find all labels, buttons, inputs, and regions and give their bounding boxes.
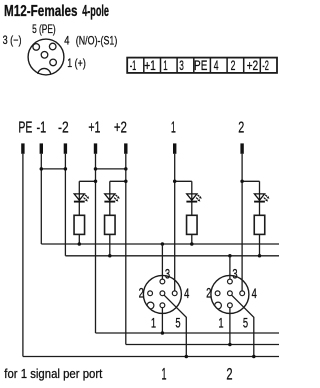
resistor R1	[74, 215, 85, 234]
svg-text:1: 1	[162, 365, 167, 383]
wire signal 1 vertical	[174, 154, 176, 291]
svg-text:-2: -2	[58, 120, 69, 137]
wire -2 vertical	[64, 154, 66, 256]
svg-text:-1: -1	[130, 58, 137, 73]
junction X2 pin1 on +2 rail	[228, 343, 232, 347]
svg-text:(N/O)-(S1): (N/O)-(S1)	[76, 33, 118, 47]
svg-text:4: 4	[252, 286, 257, 301]
wire +2 vertical	[125, 154, 127, 345]
svg-text:5: 5	[243, 316, 248, 331]
junction X1 pin5 on PE rail	[185, 355, 189, 359]
svg-text:+2: +2	[114, 120, 127, 137]
junction +2 tie	[124, 167, 128, 171]
wire LED branch 2 vertical	[109, 181, 111, 256]
wire PE vertical	[22, 154, 24, 357]
svg-text:3: 3	[179, 58, 184, 73]
face keying notch	[38, 68, 51, 73]
LED D2	[104, 194, 119, 202]
junction R3 on rail A	[190, 242, 194, 246]
svg-text:4: 4	[64, 33, 69, 47]
X1 pin 4	[172, 291, 177, 296]
wire conn1 pin3 drop	[161, 244, 163, 279]
X1 pin 3	[160, 279, 165, 284]
LED D1	[74, 194, 89, 202]
junction -1 tie	[40, 167, 44, 171]
wire LED branch 3 vertical	[191, 181, 193, 244]
resistor R2	[105, 215, 116, 234]
terminal bar PE	[21, 143, 24, 153]
svg-text:4-pole: 4-pole	[82, 3, 109, 20]
X1 pin 2	[148, 291, 153, 296]
junction X1 pin1 on +1 rail	[161, 331, 165, 335]
wire -1 vertical	[40, 154, 42, 244]
wire signal 2 vertical	[241, 154, 243, 291]
svg-text:4: 4	[214, 58, 219, 73]
svg-text:for 1 signal per port: for 1 signal per port	[4, 366, 102, 381]
wire +1 vertical	[95, 154, 97, 333]
svg-text:M12-Females: M12-Females	[4, 3, 78, 20]
svg-text:2: 2	[231, 58, 236, 73]
wire LED branch 1 vertical	[78, 181, 80, 244]
svg-text:2: 2	[206, 286, 211, 301]
svg-text:5 (PE): 5 (PE)	[32, 22, 56, 36]
title M12-Females 4-pole	[4, 3, 109, 20]
junction X2 pin5 on PE rail	[252, 355, 256, 359]
X2 pin 5 center	[228, 291, 233, 296]
junction conn2 pin3 on rail B	[228, 254, 232, 257]
wire conn2 pin3 drop	[229, 256, 231, 279]
svg-text:+1: +1	[88, 120, 100, 137]
wire tie +1 to +2	[96, 168, 126, 170]
X2 keying notch	[215, 302, 222, 309]
terminal bar -1	[40, 143, 43, 153]
resistor R4	[254, 215, 265, 234]
X2 pin 3	[228, 279, 233, 284]
svg-text:-2: -2	[262, 58, 269, 73]
svg-text:1 (+): 1 (+)	[67, 56, 86, 70]
X2 pin 2	[215, 291, 220, 296]
wire LED branch 2 stub	[110, 180, 126, 182]
svg-text:1: 1	[218, 316, 223, 331]
junction stub 1 on +1	[94, 180, 98, 184]
wire tie -1 to -2	[41, 168, 65, 170]
wire LED branch 1 stub	[79, 180, 95, 182]
LED D3	[186, 194, 201, 202]
junction +1 tie	[94, 167, 98, 171]
terminal strip outline	[127, 58, 277, 73]
svg-text:1: 1	[151, 316, 156, 331]
junction conn1 pin3 on rail A	[161, 242, 165, 246]
connector face body (M12 female view)	[28, 39, 64, 75]
wire LED branch 4 vertical	[259, 181, 261, 256]
resistor R3	[187, 215, 198, 234]
junction R4 on rail B	[258, 254, 262, 257]
junction R1 on rail A	[78, 242, 82, 246]
svg-text:3 (−): 3 (−)	[3, 33, 22, 47]
LED D4	[254, 194, 269, 202]
X1 keying notch	[147, 302, 154, 309]
face pin 1	[50, 59, 57, 66]
wire LED branch 3 stub	[175, 180, 192, 182]
X2 pin 1	[228, 303, 233, 308]
svg-text:5: 5	[175, 316, 180, 331]
wire X1 pin1 drop	[161, 308, 163, 333]
svg-text:2: 2	[226, 365, 232, 383]
junction -2 tie	[64, 167, 68, 171]
connector X2 body	[211, 275, 249, 313]
junction stub 4 on signal 2	[240, 180, 244, 184]
svg-text:2: 2	[238, 120, 244, 137]
junction R2 on rail B	[108, 254, 112, 257]
svg-text:4: 4	[184, 286, 189, 301]
svg-text:2: 2	[139, 286, 144, 301]
wire rail B (-2 net)	[65, 255, 279, 257]
terminal bar +1	[94, 143, 97, 153]
X1 pin 5 center	[160, 291, 165, 296]
svg-text:-1: -1	[37, 120, 47, 137]
face pin 4	[49, 43, 56, 50]
terminal strip cell dividers	[144, 58, 260, 73]
face pin 5	[41, 52, 48, 59]
wire LED branch 4 stub	[242, 180, 259, 182]
wire +2 rail bottom	[126, 344, 279, 346]
terminal bar 1	[173, 143, 176, 153]
junction stub 2 on +2	[124, 180, 128, 184]
wire X2 pin5 diagonal to PE	[231, 295, 253, 357]
junction stub 3 on signal 1	[173, 180, 177, 184]
face pin 3	[33, 44, 40, 51]
X2 pin 4	[240, 291, 245, 296]
X1 pin 1	[160, 303, 165, 308]
wire PE rail bottom	[23, 356, 279, 358]
svg-text:+1: +1	[144, 58, 156, 73]
svg-text:3: 3	[165, 267, 170, 282]
wire X2 pin1 drop	[229, 308, 231, 345]
terminal bar +2	[124, 143, 127, 153]
svg-text:1: 1	[171, 120, 176, 137]
wire rail A (-1 net)	[41, 243, 279, 245]
wire +1 rail bottom	[96, 332, 280, 334]
svg-text:1: 1	[163, 58, 167, 73]
terminal bar 2	[240, 143, 243, 153]
svg-text:+2: +2	[247, 58, 259, 73]
svg-text:PE: PE	[18, 120, 32, 137]
terminal bar -2	[64, 143, 67, 153]
svg-text:3: 3	[232, 267, 237, 282]
svg-text:PE: PE	[194, 58, 207, 73]
wire X1 pin5 diagonal to PE	[164, 295, 186, 357]
connector X1 body	[143, 275, 181, 313]
